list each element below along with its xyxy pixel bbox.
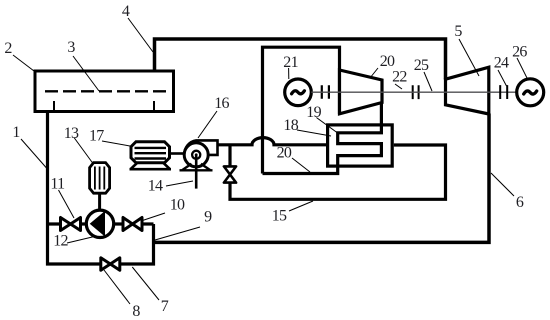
valve 8 <box>101 258 120 271</box>
label 19 <box>306 104 339 134</box>
label 3 <box>67 39 99 91</box>
label 17 <box>89 128 130 146</box>
svg-text:13: 13 <box>64 125 79 142</box>
svg-text:19: 19 <box>306 104 321 121</box>
svg-text:21: 21 <box>283 54 298 71</box>
svg-text:25: 25 <box>414 57 429 74</box>
label 22 <box>392 69 407 89</box>
coupling 24 <box>500 85 507 99</box>
heat exchanger shell 18 <box>328 125 393 166</box>
svg-text:6: 6 <box>516 194 524 211</box>
wire: motor-fan shaft <box>170 152 185 155</box>
svg-text:11: 11 <box>50 175 65 192</box>
label 24 <box>494 54 509 86</box>
svg-text:3: 3 <box>67 39 75 56</box>
wire: condensate drop pipe 1 <box>46 113 49 225</box>
svg-text:15: 15 <box>272 208 287 225</box>
wire: bottom return line and right edge 6 <box>154 114 490 243</box>
condenser internal tick right <box>153 101 155 110</box>
svg-text:14: 14 <box>148 178 163 195</box>
valve 10 <box>123 218 142 231</box>
svg-text:20: 20 <box>380 53 395 70</box>
label 16 <box>198 95 229 138</box>
label 7 <box>132 267 168 315</box>
fan stand 14 <box>180 155 213 189</box>
label 20 turbine <box>370 53 395 78</box>
label 18 <box>283 117 331 136</box>
coupling 22 <box>413 85 419 99</box>
valve (vertical) on cooling loop <box>224 166 236 182</box>
label 20 return line <box>277 145 310 172</box>
turbine 5 <box>446 67 489 114</box>
wire: branch to valve on cooling loop <box>228 145 231 167</box>
heat exchanger coil 19 <box>338 126 382 166</box>
label 11 <box>50 175 74 218</box>
label 12 <box>53 232 96 249</box>
svg-text:10: 10 <box>170 197 185 214</box>
svg-text:26: 26 <box>512 43 527 60</box>
svg-text:2: 2 <box>4 40 12 57</box>
svg-text:22: 22 <box>392 69 407 86</box>
wire: pump suction/discharge line <box>48 222 154 225</box>
wire: condensate return of secondary loop 20 <box>263 166 338 174</box>
wire: secondary loop left/top/right (box around generator 21) <box>263 47 340 173</box>
svg-text:20: 20 <box>277 145 292 162</box>
coupling between 21 and 20 <box>322 85 329 99</box>
svg-text:16: 16 <box>214 95 229 112</box>
turbine 20 <box>340 70 383 114</box>
svg-text:7: 7 <box>161 298 169 315</box>
wire: turbine-generator shaft (21-20-22-5-24-26) <box>311 91 517 93</box>
wire: main steam line 4 (top edge, left edge to condenser, drop to turbine 5) <box>155 39 446 80</box>
wire: fan discharge line with crossover hump <box>218 138 328 145</box>
label 4 <box>122 3 153 52</box>
condenser 2 <box>35 71 174 112</box>
label 10 <box>141 197 185 222</box>
label 8 <box>104 270 140 320</box>
label 5 <box>454 23 479 76</box>
svg-text:4: 4 <box>122 3 130 20</box>
pump 12 <box>86 210 113 237</box>
label 2 <box>4 40 34 71</box>
condenser internal tick left <box>53 101 55 110</box>
wire: cooling return line 15 <box>230 145 446 199</box>
svg-text:5: 5 <box>454 23 462 40</box>
label 1 <box>12 124 46 168</box>
label 26 <box>512 43 527 78</box>
label 15 <box>272 201 313 225</box>
generator 26 <box>517 79 544 106</box>
generator 21 <box>285 79 312 106</box>
svg-text:8: 8 <box>132 303 140 320</box>
label 14 <box>148 178 193 195</box>
svg-text:12: 12 <box>53 232 68 249</box>
fan/blower 16 <box>184 140 217 166</box>
filter/damper 13 <box>90 163 110 194</box>
svg-text:17: 17 <box>89 128 104 145</box>
condenser tube dashed line 3 <box>45 90 167 92</box>
motor 17 <box>130 142 172 170</box>
svg-text:1: 1 <box>12 124 20 141</box>
label 13 <box>64 125 93 164</box>
label 6 <box>491 173 524 211</box>
label 21 <box>283 54 298 79</box>
wire: pump bypass loop 7/9 <box>48 224 154 264</box>
valve 11 <box>61 218 81 231</box>
label 25 <box>414 57 432 91</box>
label 9 <box>155 209 212 241</box>
wire: pump to filter 13 stem <box>98 193 101 211</box>
svg-text:24: 24 <box>494 54 509 71</box>
svg-text:18: 18 <box>283 117 298 134</box>
svg-text:9: 9 <box>204 209 212 226</box>
wire: turbine 20 exhaust into heat exchanger <box>380 103 383 127</box>
